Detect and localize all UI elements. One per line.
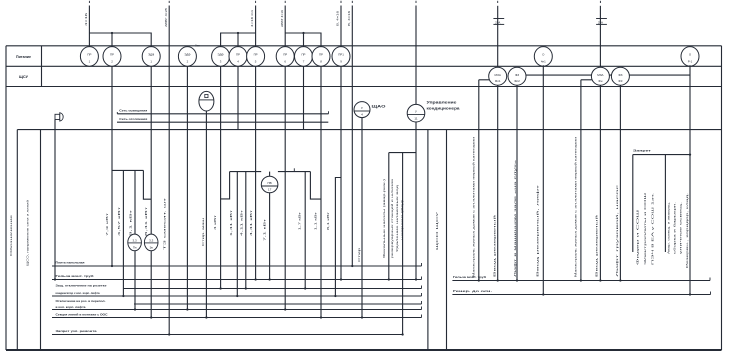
wire lane x220 bbox=[220, 65, 222, 288]
svg-text:МЗА: МЗА bbox=[495, 73, 501, 77]
pillar x237 bbox=[236, 172, 238, 296]
fuse circle ПР7 bbox=[295, 47, 313, 67]
junction lane206 bbox=[205, 316, 207, 318]
step hook lane220 bbox=[221, 172, 230, 199]
function row R4a bbox=[134, 303, 422, 305]
svg-text:Гильза монт. труб: Гильза монт. труб bbox=[453, 275, 486, 279]
svg-text:25А: 25А bbox=[598, 20, 603, 24]
junction x601 bbox=[599, 279, 601, 281]
feeder L4 wire bbox=[284, 6, 286, 48]
svg-text:8,1 кВт: 8,1 кВт bbox=[128, 208, 132, 236]
svg-text:ПВ: ПВ bbox=[267, 181, 271, 185]
pillar x135 (to circle A) bbox=[134, 170, 136, 309]
svg-text:Фидер и СОШ: Фидер и СОШ bbox=[636, 209, 640, 265]
feeder L5 top terminal bbox=[340, 1, 342, 3]
junction pillar246 bbox=[245, 287, 247, 289]
rect wire x402 bbox=[402, 153, 404, 335]
svg-text:АВВГ 4×25: АВВГ 4×25 bbox=[164, 8, 168, 27]
U4 stem bbox=[361, 118, 363, 318]
svg-text:Стир. маш: Стир. маш bbox=[201, 217, 205, 246]
wire lane x206 (motor feed) bbox=[205, 111, 207, 318]
junction x479 bbox=[478, 279, 480, 281]
svg-text:ЭДФ: ЭДФ bbox=[148, 53, 155, 57]
wire lane x151 (to R5) bbox=[150, 65, 152, 317]
lane x581 bbox=[580, 80, 582, 281]
function row R5 bbox=[52, 317, 422, 319]
svg-text:Плита напольная: Плита напольная bbox=[56, 260, 85, 264]
load circle B chord bbox=[144, 242, 158, 244]
junction pillar135 bbox=[134, 308, 136, 310]
feeder L8 top terminal bbox=[497, 1, 499, 3]
svg-text:17: 17 bbox=[268, 188, 272, 192]
pillar x123.4 bbox=[122, 170, 124, 296]
junction x388 bbox=[388, 278, 390, 280]
junction pillar123 bbox=[122, 295, 124, 297]
lane x622 (FZ2 stem) bbox=[619, 85, 621, 280]
svg-text:7,1 кВт: 7,1 кВт bbox=[262, 217, 266, 241]
feeder L2 top terminal bbox=[168, 1, 170, 3]
junction lane321 bbox=[320, 316, 322, 318]
svg-text:Ф3: Ф3 bbox=[618, 79, 622, 83]
svg-text:Ввод резервный: Ввод резервный bbox=[595, 214, 599, 277]
junction lane187 bbox=[186, 308, 188, 310]
junction x520 bbox=[516, 279, 518, 281]
svg-text:В, 4×16: В, 4×16 bbox=[336, 11, 340, 26]
wire lane x303 stub bbox=[303, 65, 305, 129]
svg-text:ПР: ПР bbox=[236, 53, 240, 57]
branch drop G3b bbox=[303, 33, 305, 47]
junction OP1-RB bbox=[689, 293, 691, 295]
svg-text:МЗА: МЗА bbox=[597, 73, 603, 77]
branch header g1 bbox=[112, 169, 143, 171]
svg-text:кондиционера: кондиционера bbox=[427, 107, 460, 111]
junction U4 stem bbox=[361, 316, 363, 318]
svg-text:Зв: Зв bbox=[150, 246, 154, 250]
svg-text:ЩСУ: ЩСУ bbox=[19, 75, 29, 79]
svg-text:Секция линий в монтаже с ООС: Секция линий в монтаже с ООС bbox=[56, 312, 109, 316]
feeder L4 top terminal bbox=[284, 1, 286, 3]
stem O4n1 bbox=[542, 65, 544, 294]
svg-text:8,1 кВт: 8,1 кВт bbox=[326, 211, 330, 230]
motor M1 square bbox=[205, 94, 208, 97]
svg-text:уличное освещ.: уличное освещ. bbox=[679, 202, 683, 254]
control circle U4 bbox=[354, 102, 370, 118]
svg-text:Отключение на роз. в перепол.: Отключение на роз. в перепол. bbox=[56, 299, 106, 303]
row2 feed wire left bbox=[479, 79, 489, 81]
bell symbol bbox=[55, 114, 60, 119]
svg-text:4 кВт: 4 кВт bbox=[213, 214, 217, 230]
svg-text:Ввод резервный: Ввод резервный bbox=[493, 214, 497, 277]
U11 chord bbox=[407, 113, 425, 115]
breaker circle МЗА Фн bbox=[591, 67, 609, 85]
svg-text:сборка и барьерн.: сборка и барьерн. bbox=[673, 202, 677, 254]
feeder L7 wire upper bbox=[415, 6, 417, 106]
junction L6 bottom bbox=[351, 265, 353, 267]
junction lane151-R5 bbox=[150, 316, 152, 318]
svg-text:У: У bbox=[415, 109, 417, 113]
svg-text:Запрет: Запрет bbox=[633, 149, 652, 153]
svg-text:Фл1: Фл1 bbox=[495, 79, 501, 83]
svg-text:Генер. до осн.: Генер. до осн. bbox=[453, 289, 492, 293]
function row R3b bbox=[52, 295, 422, 297]
junction G3 bbox=[302, 32, 304, 34]
function row R3a bbox=[123, 288, 422, 290]
svg-text:Лифт в машинном зале «на слух»: Лифт в машинном зале «на слух» bbox=[513, 159, 517, 277]
sheet frame right edge bbox=[721, 46, 723, 350]
function row R6 bbox=[52, 334, 403, 336]
svg-text:ЩАО: ЩАО bbox=[372, 105, 387, 109]
junction x499 bbox=[497, 279, 499, 281]
svg-text:8,41 кВт: 8,41 кВт bbox=[144, 205, 148, 236]
function row R4b bbox=[52, 309, 422, 311]
svg-text:Фн: Фн bbox=[598, 79, 602, 83]
pillar x246 bbox=[245, 172, 247, 289]
svg-text:4,11 кВт: 4,11 кВт bbox=[240, 208, 244, 236]
svg-text:Управление: Управление bbox=[427, 101, 457, 105]
svg-text:направл.(б/у): направл.(б/у) bbox=[400, 200, 404, 240]
svg-text:Фекальные насосы (авар.реж.): Фекальные насосы (авар.реж.) bbox=[382, 179, 386, 258]
wire lane x341 bbox=[340, 65, 342, 279]
svg-text:Зав: Зав bbox=[195, 44, 200, 48]
disconnect symbol L8 bbox=[493, 18, 504, 20]
sheet frame bottom edge bbox=[6, 349, 722, 351]
table bottom border bbox=[6, 86, 722, 88]
svg-text:Стир: Стир bbox=[357, 247, 361, 262]
bus N1 horizontal bbox=[17, 129, 721, 131]
step hook lane321 bbox=[310, 172, 321, 200]
fuse circle ПР5 bbox=[247, 47, 265, 67]
svg-text:Сеть освещения: Сеть освещения bbox=[119, 109, 147, 113]
left column divider bbox=[40, 130, 42, 350]
junction lane255 bbox=[254, 278, 256, 280]
feeder L2 wire bbox=[168, 6, 170, 335]
fuse circle ПР4 bbox=[229, 47, 247, 67]
junction PV17 stem bbox=[268, 278, 270, 280]
junction x402 bbox=[401, 333, 403, 335]
row2 feed wire right bbox=[581, 79, 592, 81]
function row R1 bbox=[52, 265, 422, 267]
junction pillar305 bbox=[304, 287, 306, 289]
svg-text:4,57 кВт: 4,57 кВт bbox=[117, 205, 121, 236]
svg-text:3,3: 3,3 bbox=[149, 239, 154, 243]
svg-text:ЭДФ: ЭДФ bbox=[184, 53, 191, 57]
feeder L9 top terminal bbox=[599, 1, 601, 3]
svg-text:Р-1: Р-1 bbox=[688, 60, 693, 64]
svg-text:ПР1: ПР1 bbox=[338, 53, 344, 57]
svg-text:Запрет узл. ремонта: Запрет узл. ремонта bbox=[56, 329, 97, 333]
junction L2 bottom bbox=[168, 333, 170, 335]
svg-text:Электроплиты и СОШ: Электроплиты и СОШ bbox=[643, 192, 647, 265]
wire lane x255 bbox=[255, 65, 257, 279]
svg-text:Авар. освещ. и эвакуац.: Авар. освещ. и эвакуац. bbox=[667, 202, 671, 254]
rect wire x388 bbox=[388, 153, 390, 280]
feeder L3 wire bbox=[255, 6, 257, 48]
svg-text:ЩСО, напряжение сети и линий: ЩСО, напряжение сети и линий bbox=[25, 200, 29, 266]
control circle U11 bbox=[407, 104, 425, 122]
feeder L6 top terminal bbox=[351, 1, 353, 3]
pillar x305 bbox=[304, 172, 306, 289]
fuse circle ОР-1 bbox=[681, 47, 699, 67]
wire lane x238 stub bbox=[237, 65, 239, 129]
junction G1 bbox=[111, 32, 113, 34]
svg-text:ПР: ПР bbox=[301, 53, 305, 57]
step hook lane341 bbox=[335, 178, 341, 297]
group header wire G2 bbox=[221, 33, 256, 47]
svg-text:АВВГ 4×16: АВВГ 4×16 bbox=[280, 10, 284, 27]
fuse circle ЭДФ1 bbox=[142, 47, 160, 67]
junction pillar237 bbox=[236, 295, 238, 297]
svg-text:ФЗ: ФЗ bbox=[618, 73, 622, 77]
group header wire G1 bbox=[89, 33, 151, 47]
svg-text:Гильза монт. труб: Гильза монт. труб bbox=[56, 274, 94, 278]
branch header g2 right bbox=[278, 171, 311, 173]
fuse circle ПР2 bbox=[103, 47, 121, 67]
fuse circle ЭДФ3 bbox=[212, 47, 230, 67]
svg-text:4: 4 bbox=[361, 113, 363, 117]
svg-text:Фл2: Фл2 bbox=[514, 79, 520, 83]
section separator left bbox=[427, 130, 429, 350]
svg-text:Обозначение: Обозначение bbox=[9, 214, 13, 256]
wire lane x321 (to R5) bbox=[320, 65, 322, 317]
fuse circle ПР6 bbox=[276, 47, 294, 67]
svg-text:ЩСО ЩСУ: ЩСО ЩСУ bbox=[435, 212, 439, 250]
feeder L3 top terminal bbox=[255, 1, 257, 3]
svg-text:25А: 25А bbox=[495, 20, 500, 24]
PV17 chord bbox=[261, 185, 278, 187]
svg-text:резервуарных станций и шлюзов: резервуарных станций и шлюзов bbox=[390, 178, 394, 258]
feeder L7 top terminal bbox=[415, 1, 417, 3]
fuse circle ПР8 bbox=[312, 47, 330, 67]
breaker circle МЗА Фл1 bbox=[489, 67, 507, 85]
svg-text:1,1 кВт: 1,1 кВт bbox=[313, 211, 317, 230]
load circle B bbox=[144, 234, 158, 251]
svg-text:11: 11 bbox=[414, 116, 417, 120]
bus left drop / column border bbox=[16, 130, 18, 350]
stub to PV17 top bbox=[269, 172, 271, 177]
lane x499 (MZA stem) bbox=[497, 85, 499, 280]
motor M1 chord bbox=[199, 99, 214, 101]
junction bell-R2 bbox=[54, 278, 56, 280]
svg-text:в кол. корп. лифта: в кол. корп. лифта bbox=[56, 305, 86, 309]
sheet frame left edge bbox=[5, 46, 7, 350]
load circle A bbox=[128, 234, 142, 251]
svg-text:Пн: Пн bbox=[133, 246, 137, 250]
svg-text:В, 4×16: В, 4×16 bbox=[347, 11, 351, 26]
feeder L8 wire bbox=[497, 6, 499, 68]
svg-text:1,7 кВт: 1,7 кВт bbox=[298, 211, 302, 230]
stem OP1 bbox=[689, 65, 691, 294]
table row divider bbox=[6, 65, 722, 67]
PV17 stem bbox=[269, 193, 271, 280]
wire lane x285 bbox=[284, 65, 286, 309]
fuse circle ПР1 bbox=[80, 47, 98, 67]
junction O4n1-RB bbox=[542, 293, 544, 295]
fuse circle О4н1 bbox=[534, 47, 552, 67]
group header wire G3 bbox=[285, 33, 321, 47]
svg-text:ЭДФ: ЭДФ bbox=[218, 53, 225, 57]
svg-text:Сеть отопления: Сеть отопления bbox=[119, 117, 147, 121]
function row RB bbox=[452, 294, 710, 296]
feeder L7 wire lower bbox=[415, 122, 417, 280]
feeder L1 wire bbox=[88, 6, 90, 48]
row2 link wire upper bbox=[526, 74, 690, 76]
junction lane285 bbox=[284, 308, 286, 310]
function row RA bbox=[452, 280, 710, 282]
fuse circle ПР19 bbox=[332, 47, 350, 67]
drop x633 bbox=[632, 155, 634, 252]
svg-text:У: У bbox=[361, 106, 363, 110]
branch header Запрет bbox=[633, 154, 690, 156]
drop x665 bbox=[664, 155, 666, 252]
junction x581 bbox=[580, 279, 582, 281]
table top border bbox=[6, 45, 722, 47]
junction x416 bbox=[415, 278, 417, 280]
svg-text:ПР: ПР bbox=[87, 53, 91, 57]
svg-text:Лифт грузовой, насос: Лифт грузовой, насос bbox=[615, 183, 619, 277]
motor circle M1 bbox=[199, 91, 214, 111]
wire lane x112 bbox=[111, 65, 113, 266]
svg-text:4н1: 4н1 bbox=[541, 60, 546, 64]
feeder L6 wire bbox=[351, 6, 353, 267]
svg-text:Магистраль жилых домов с эл.пл: Магистраль жилых домов с эл.плитами перв… bbox=[472, 136, 476, 277]
fuse circle ЭДФ2 bbox=[178, 47, 196, 67]
circle PV17 bbox=[261, 176, 278, 193]
junction lane335 bbox=[334, 295, 336, 297]
function row R2 bbox=[52, 279, 422, 281]
svg-text:4,41 кВт: 4,41 кВт bbox=[249, 208, 253, 236]
junction lane220 bbox=[219, 287, 221, 289]
branch header g2 left bbox=[230, 171, 262, 173]
svg-text:Удаление шлаковых вод: Удаление шлаковых вод bbox=[395, 184, 399, 252]
svg-text:4×16: 4×16 bbox=[84, 12, 88, 26]
U4 chord bbox=[354, 110, 370, 112]
svg-text:Резервн., коридор, клад.: Резервн., коридор, клад. bbox=[685, 193, 689, 268]
branch Сеть отопления wire bbox=[117, 121, 328, 123]
lane x479 bbox=[478, 80, 480, 281]
branch drop G1b bbox=[111, 33, 113, 47]
feeder L1 top terminal bbox=[88, 1, 90, 3]
svg-text:Питание: Питание bbox=[16, 55, 31, 59]
svg-text:ПР: ПР bbox=[319, 53, 323, 57]
svg-text:ПР: ПР bbox=[283, 53, 287, 57]
junction G2 bbox=[237, 32, 239, 34]
load circle A chord bbox=[128, 242, 142, 244]
svg-text:1,41 кВт: 1,41 кВт bbox=[229, 208, 233, 236]
step g1 bbox=[143, 170, 151, 199]
svg-text:ФЗ: ФЗ bbox=[515, 73, 519, 77]
feeder L9 wire bbox=[599, 6, 601, 68]
breaker circle ФЗ Ф3 bbox=[611, 67, 629, 85]
section separator right bbox=[446, 130, 448, 350]
svg-text:ПЭЧ 8 ЕА у СОШ 1эт.: ПЭЧ 8 ЕА у СОШ 1эт. bbox=[651, 193, 655, 265]
stub on header g2r bbox=[293, 168, 295, 171]
feeder L5 wire bbox=[340, 6, 342, 48]
svg-text:7,3 кВт: 7,3 кВт bbox=[105, 211, 109, 236]
svg-text:ПР: ПР bbox=[110, 53, 114, 57]
wire lane x187 (to R4) bbox=[186, 65, 188, 309]
branch Сеть освещения wire bbox=[117, 113, 328, 115]
svg-text:Магистраль жилых домов с эл.пл: Магистраль жилых домов с эл.плитами перв… bbox=[574, 136, 578, 277]
branch header rect bbox=[389, 152, 416, 154]
svg-text:конденсатор с кол. корп. лифта: конденсатор с кол. корп. лифта bbox=[56, 291, 100, 295]
svg-text:ПР: ПР bbox=[254, 53, 258, 57]
junction lane341 bbox=[340, 278, 342, 280]
table header column divider bbox=[41, 46, 43, 87]
lane x520 (FZ stem) bbox=[516, 85, 518, 280]
disconnect symbol L9 bbox=[596, 18, 607, 20]
lane x601 (MZA2 stem) bbox=[599, 85, 601, 280]
svg-text:Защ. отключение на розетке: Защ. отключение на розетке bbox=[56, 283, 107, 287]
svg-text:Ввод резервный, лифт: Ввод резервный, лифт bbox=[536, 183, 540, 277]
branch drop G2b bbox=[237, 33, 239, 47]
bell stem bbox=[54, 120, 56, 280]
junction lane112-R1 bbox=[111, 265, 113, 267]
svg-text:ТЗ смесит. шт: ТЗ смесит. шт bbox=[162, 196, 166, 250]
breaker circle ФЗ Фл2 bbox=[508, 67, 526, 85]
junction x622 bbox=[619, 279, 621, 281]
svg-text:4×16 Сп: 4×16 Сп bbox=[250, 9, 254, 27]
svg-text:3,3: 3,3 bbox=[133, 239, 138, 243]
